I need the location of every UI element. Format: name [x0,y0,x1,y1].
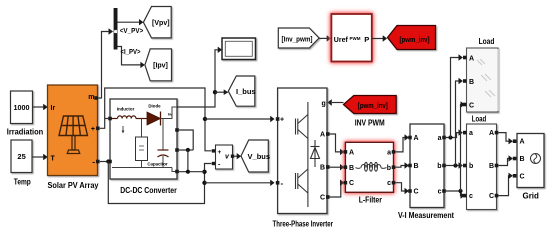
wire inverter B to filter [330,164,345,170]
converter switch [136,137,148,161]
junction dot DC- converter branch [202,170,206,174]
junction dot b run [453,163,457,167]
from tag Inv_pwm [278,28,319,48]
svg-text:c: c [387,180,391,187]
from tag pwm_inv (red) [344,96,397,114]
svg-text:A: A [489,130,494,137]
svg-text:PWM: PWM [350,36,361,41]
svg-text:V-I Measurement: V-I Measurement [398,211,454,220]
svg-text:T: T [51,156,56,163]
wire load2 A to grid A [498,133,509,142]
wire PV- to converter [100,161,108,163]
wire b run up to Load1 B [456,81,459,166]
vmeas out port [231,155,234,158]
svg-text:c: c [438,189,442,196]
wire pwm_inv to inverter g [327,99,343,105]
junction dot on P3 run [186,170,190,174]
wire V-I c to Load2 c [446,191,461,196]
inverter IGBT bridge icon [296,102,308,207]
svg-text:B: B [414,163,419,170]
svg-text:+: + [218,149,222,156]
grid block [517,134,544,188]
V-I a port [442,136,446,140]
wire bus selector to Ipv [118,47,141,65]
load2 C port [495,194,499,198]
load1 A port [463,56,467,60]
filter B port [344,165,348,169]
svg-text:Solar PV Array: Solar PV Array [48,181,100,190]
svg-text:C: C [349,180,354,187]
converter internal wires [112,107,177,172]
constant block 25 [11,140,32,173]
svg-text:[Inv_pwm]: [Inv_pwm] [282,36,313,43]
voltage measurement block [216,145,233,169]
svg-text:DC-DC Converter: DC-DC Converter [120,186,177,195]
wire inverter A to filter [330,134,341,152]
svg-text:m: m [88,94,94,101]
wire a run up to Load1 A [451,58,459,138]
filter b port [392,165,396,169]
wire DC+ to inverter [205,116,275,122]
svg-text:25: 25 [17,152,25,161]
wire PV+ to converter and DC+ rail [100,88,212,151]
goto tag I_bus [228,76,255,106]
load2 a port [463,131,467,135]
svg-text:g: g [322,101,326,108]
svg-text:+: + [91,126,95,133]
svg-text:P: P [364,35,369,44]
svg-text:Irradiation: Irradiation [7,127,44,136]
constant block 1000 [11,91,33,124]
svg-text:-: - [281,179,284,188]
svg-text:Inductor: Inductor [117,107,135,112]
svg-text:A: A [469,56,474,63]
load block 2 [467,124,497,210]
wire filter b to V-I measurement [395,166,405,168]
PWM generator block [331,14,371,62]
converter capacitor [158,150,169,157]
inverter - port [276,181,280,185]
wire V-I b to Load2 b [446,165,459,167]
wire PV m to bus selector [98,32,109,99]
junction dot DC+ inverter branch [203,117,207,121]
V-I B port [408,164,412,168]
goto tag pwm_inv (red) [388,26,436,50]
junction dot I_bus branch [213,90,217,94]
filter c port [392,181,396,185]
wire c run up to Load1 C [460,105,462,192]
svg-text:Ir: Ir [51,105,56,112]
svg-text:c: c [469,193,473,200]
svg-text:-: - [92,158,95,167]
svg-text:A: A [414,135,419,142]
converter out P1 port [175,128,179,132]
inverter C port [326,195,330,199]
load2 b port [463,164,467,168]
svg-text:I_bus: I_bus [236,87,256,96]
svg-text:A: A [520,139,525,146]
junction dot DC- inverter branch [202,181,206,185]
PV - port [96,160,100,164]
vmeas - port [212,162,215,165]
solar panel icon [59,116,88,154]
junction dot a run [448,135,452,139]
inverter + port [276,117,280,121]
load1 ghost icon [477,59,495,97]
svg-text:Diode: Diode [148,104,161,109]
bus selector [114,8,118,50]
V-I measurement block [410,124,444,208]
wire P2 junction down to DC- [187,150,189,172]
inverter diode icon [311,140,320,167]
wire PWM generator to pwm_inv goto [372,35,387,41]
svg-text:B: B [520,156,525,163]
wire V-I a to Load2 a [446,133,459,138]
svg-text:b: b [437,163,441,170]
svg-text:[pwm_inv]: [pwm_inv] [400,37,430,44]
svg-text:A: A [320,132,325,139]
filter C port [344,181,348,185]
svg-text:C: C [469,103,474,110]
svg-text:b: b [469,163,473,170]
wire load2 B to grid B [498,159,509,166]
display block [222,38,256,60]
wire converter P1 [179,130,193,150]
DC-DC converter block [110,99,177,179]
svg-text:Load: Load [479,36,495,46]
svg-text:<V_PV>: <V_PV> [120,28,144,35]
svg-text:INV PWM: INV PWM [355,119,385,128]
PV + port [96,127,100,131]
V-I C port [408,189,412,193]
svg-text:C: C [414,189,419,196]
wire to I_bus [215,89,228,95]
three-phase inverter block [278,88,327,214]
svg-text:[pwm_inv]: [pwm_inv] [358,103,388,110]
L-filter block [345,142,393,192]
converter in+ port [108,117,112,121]
converter measurement arrow [122,126,125,134]
grid AC source icon [531,154,541,164]
svg-text:a: a [387,150,391,157]
PV m port [94,96,98,100]
wire vmeas to V_bus [234,153,241,159]
converter out P2 port [175,148,179,152]
filter a port [392,150,396,154]
wire inverter C to filter [330,183,341,197]
svg-text:B: B [349,165,354,172]
svg-text:B: B [469,79,474,86]
V-I c port [442,189,446,193]
wire DC- to inverter [205,180,275,186]
converter diode [147,112,161,126]
wire constant1000 to PV Ir [33,104,48,110]
svg-text:C: C [320,195,325,202]
svg-text:+: + [280,117,284,124]
inverter B port [326,165,330,169]
converter out P3 port [175,170,179,174]
svg-text:Uref: Uref [334,37,349,44]
grid A port [513,139,517,143]
svg-text:a: a [469,130,473,137]
vmeas + port [212,149,215,152]
svg-text:Three-Phase Inverter: Three-Phase Inverter [273,220,334,229]
svg-text:1000: 1000 [14,103,30,112]
svg-text:C: C [489,193,494,200]
load block 1 [467,48,499,112]
grid B port [513,157,517,161]
wire filter a to V-I measurement [395,138,405,152]
svg-text:b: b [387,165,391,172]
wire load2 C to grid C [498,176,509,196]
load2 c port [463,194,467,198]
junction dot c run [458,189,462,193]
svg-text:[Vpv]: [Vpv] [152,20,170,27]
svg-text:Capacitor: Capacitor [147,162,168,167]
svg-text:a: a [438,135,442,142]
wire Inv_pwm to PWM generator [319,35,331,41]
svg-text:B: B [320,165,325,172]
svg-text:Grid: Grid [522,191,539,200]
converter inductor [111,116,147,119]
wire converter W1 to display [177,50,218,107]
filter A port [344,150,348,154]
wire converter P2 [179,149,193,151]
solar PV array block [48,85,98,176]
grid C port [513,174,517,178]
V-I A port [408,136,412,140]
goto tag Ipv [145,49,172,81]
svg-text:L-Filter: L-Filter [359,196,382,205]
load2 A port [495,131,499,135]
junction dot PV- branch [106,159,110,163]
goto tag Vpv [143,7,171,38]
load1 C port [463,103,467,107]
svg-text:<I_PV>: <I_PV> [121,49,141,56]
svg-text:Temp: Temp [14,177,31,186]
V-I b port [442,164,446,168]
junction dot P2 branch [186,148,190,152]
load2 B port [495,164,499,168]
inverter A port [326,132,330,136]
svg-text:B: B [489,163,494,170]
svg-text:V_bus: V_bus [248,152,271,161]
converter in- port [108,160,112,164]
L-filter coil icon [356,162,387,171]
svg-text:A: A [349,150,354,157]
goto tag V_bus [241,140,270,172]
wire constant25 to PV T [32,154,48,160]
svg-text:Load: Load [472,113,487,123]
wire filter c to V-I measurement [395,183,405,191]
load1 B port [463,79,467,83]
svg-text:C: C [520,173,525,180]
wire bus selector to Vpv [118,19,144,25]
DC- bottom wire [108,162,211,204]
wire converter P3 to DC- rail [179,171,205,173]
svg-text:[Ipv]: [Ipv] [153,62,168,69]
